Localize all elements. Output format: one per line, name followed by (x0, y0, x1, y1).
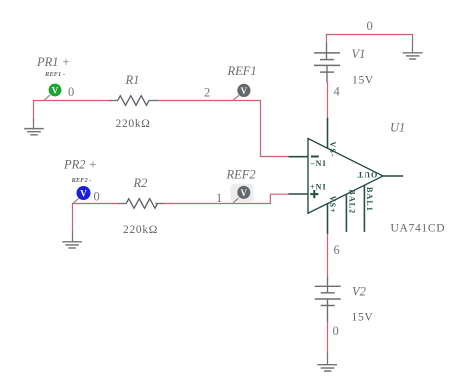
svg-text:4: 4 (334, 85, 341, 99)
probe REF2 (231, 184, 254, 204)
svg-text:15V: 15V (352, 312, 374, 324)
ground GND4 (bottom) (317, 353, 337, 371)
label REF2 - (71, 177, 92, 184)
wire row2 right horizontal (164, 203, 271, 205)
label PR1 + (36, 55, 70, 69)
label REF1 (227, 64, 257, 78)
label REF1 - (44, 71, 65, 78)
svg-text:VS+: VS+ (328, 196, 337, 214)
wire V2 to ground (327, 322, 329, 354)
pin IN- stub (289, 156, 309, 158)
svg-text:15V: 15V (352, 75, 374, 87)
wire row1 right horizontal (157, 100, 261, 102)
svg-text:0: 0 (94, 189, 100, 203)
plus input marker (310, 190, 318, 198)
wire V1 to opamp (327, 82, 329, 119)
svg-text:U1: U1 (390, 120, 405, 134)
pin BAL2 stub (345, 194, 347, 232)
svg-text:PR2 +: PR2 + (63, 157, 97, 171)
wire top net left riser (326, 35, 328, 45)
node 0 (row2) (94, 189, 100, 203)
pin VS- stub (327, 118, 329, 149)
label UA741CD (391, 223, 446, 235)
label REF2 (226, 168, 256, 182)
wire row1 left horizontal (33, 100, 110, 102)
wire row1 drop to IN- (260, 101, 262, 157)
wire row1 ground riser (33, 101, 35, 122)
pin IN+ stub (289, 193, 309, 195)
wire row2 into IN+ (270, 193, 289, 195)
label U1 (390, 120, 405, 134)
resistor R2 (118, 199, 164, 209)
svg-text:0: 0 (68, 85, 74, 99)
svg-text:V: V (241, 86, 248, 96)
ground GND2 (62, 231, 82, 248)
svg-text:V: V (241, 188, 248, 198)
wire row2 jog up (269, 194, 271, 203)
svg-text:REF2 -: REF2 - (71, 177, 92, 184)
ground GND1 (24, 119, 44, 135)
svg-text:6: 6 (334, 243, 340, 257)
svg-text:V: V (80, 189, 87, 199)
svg-text:+NI: +NI (310, 183, 327, 192)
node 4 (334, 85, 341, 99)
wire top net horizontal (326, 34, 413, 36)
probe REF1 (233, 84, 250, 100)
svg-text:OUT: OUT (357, 170, 378, 179)
node 2 (204, 85, 210, 99)
svg-text:UA741CD: UA741CD (391, 223, 446, 235)
probe PR2 (73, 186, 91, 203)
ground GND3 (top right) (403, 42, 423, 59)
minus input marker (311, 156, 319, 158)
svg-text:REF1 -: REF1 - (44, 71, 65, 78)
svg-text:V2: V2 (352, 284, 366, 298)
value 220kΩ (R2) (123, 224, 158, 236)
svg-text:VS-: VS- (328, 142, 337, 158)
node 0 (top) (367, 19, 373, 33)
svg-text:V: V (52, 85, 59, 95)
label R2 (133, 176, 148, 190)
pin BAL1 stub (363, 185, 365, 232)
svg-text:REF1: REF1 (227, 64, 257, 78)
label PR2 + (63, 157, 97, 171)
svg-text:0: 0 (367, 19, 373, 33)
node 1 (216, 191, 222, 205)
label V2 (352, 284, 366, 298)
pin VS+ stub (327, 203, 329, 234)
svg-text:2: 2 (204, 85, 210, 99)
node 0 (row1) (68, 85, 74, 99)
svg-text:BAL1: BAL1 (365, 187, 374, 212)
value 220kΩ (R1) (116, 118, 151, 130)
svg-text:0: 0 (333, 324, 339, 338)
svg-text:R2: R2 (133, 176, 148, 190)
op-amp U1 (289, 118, 404, 235)
svg-text:V1: V1 (352, 47, 366, 61)
node 6 (334, 243, 340, 257)
value 15V (V2) (352, 312, 374, 324)
wire top net right riser (412, 35, 414, 43)
label V1 (352, 47, 366, 61)
probe PR1 (44, 84, 61, 101)
svg-text:220kΩ: 220kΩ (123, 224, 158, 236)
wire opamp to V2 (327, 234, 329, 278)
value 15V (V1) (352, 75, 374, 87)
wire row1 into IN- (261, 156, 290, 158)
triangle body (308, 139, 383, 214)
svg-text:BAL2: BAL2 (348, 189, 357, 214)
svg-text:R1: R1 (125, 73, 140, 87)
svg-text:1: 1 (216, 191, 222, 205)
node 0 (bottom) (333, 324, 339, 338)
battery V2 (315, 277, 341, 322)
svg-text:220kΩ: 220kΩ (116, 118, 151, 130)
svg-text:–NI: –NI (310, 159, 327, 168)
label R1 (125, 73, 140, 87)
resistor R1 (109, 96, 158, 106)
svg-text:REF2: REF2 (226, 168, 256, 182)
battery V1 (314, 44, 340, 83)
wire row2 ground riser (72, 204, 74, 233)
pin OUT stub (382, 175, 403, 177)
svg-text:PR1 +: PR1 + (36, 55, 70, 69)
wire row2 left horizontal (72, 203, 119, 205)
